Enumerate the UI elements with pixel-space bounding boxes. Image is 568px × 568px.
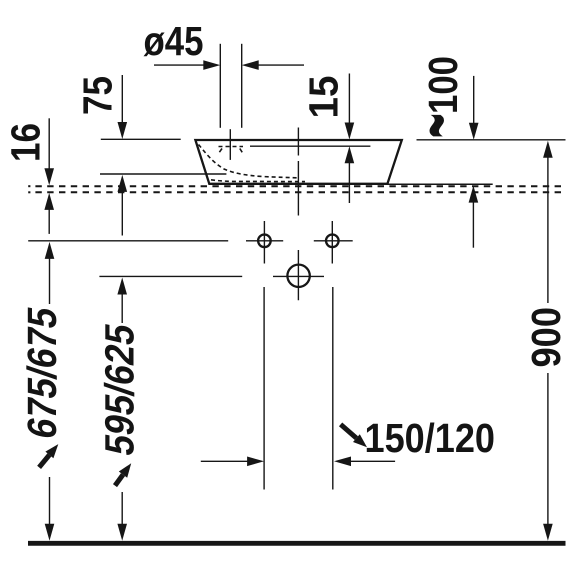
dimension 15 lower shaft with up arrow — [348, 161, 350, 203]
faucet hole hidden outline — [219, 146, 244, 148]
svg-text:75: 75 — [75, 76, 121, 115]
svg-text:15: 15 — [301, 76, 347, 119]
svg-text:16: 16 — [2, 123, 48, 162]
svg-text:ø45: ø45 — [144, 18, 204, 64]
bowl hidden contour lower — [211, 180, 305, 182]
dimension 15 upper shaft with down arrow — [348, 74, 350, 126]
dimension 900 lower segment with down arrow at floor — [547, 373, 549, 527]
leader arrow for 595/625 — [115, 475, 123, 486]
svg-text:595/625: 595/625 — [97, 320, 143, 459]
dimension 675/675 line with up arrow at tap row — [49, 256, 51, 527]
reference line at deck level (left) — [100, 173, 226, 175]
dimension 900 line with up arrow at rim level — [547, 155, 549, 303]
dimension ~100 upper shaft with down arrow — [473, 76, 475, 125]
extension line left of ø45 — [219, 44, 221, 128]
tap hole centre line row (y=240.8) — [28, 240, 353, 242]
basin outline (trapezoid side view) — [195, 140, 401, 184]
reference line at rim level (left) — [101, 138, 181, 140]
leader arrow for 675/675 — [39, 455, 49, 468]
dimension line ø45 left segment with right arrow — [154, 64, 206, 66]
drain centre line row (y=276.4) — [99, 275, 324, 277]
svg-text:150/120: 150/120 — [365, 415, 496, 461]
dimension line ø45 right segment with left arrow — [256, 64, 304, 66]
svg-text:100: 100 — [420, 56, 466, 114]
dimension 595/625 line with up arrow at drain row — [121, 291, 123, 527]
floor line — [28, 541, 566, 546]
countertop dashed line upper — [28, 185, 30, 187]
dimension ~100 lower shaft with up arrow — [472, 200, 474, 248]
basin centre line — [297, 128, 299, 301]
dimension 150/120 right segment with left arrow — [350, 460, 395, 462]
small tap hole circle right — [326, 235, 339, 248]
reference line at rim level (right) — [417, 139, 566, 141]
dimension 75 lower shaft with up arrow — [121, 189, 123, 236]
extension line below left tap hole — [263, 287, 265, 490]
small tap hole circle left — [258, 235, 271, 248]
leader arrow for 150/120 — [341, 424, 357, 438]
dimension 16 upper shaft with down arrow — [48, 118, 50, 170]
svg-text:675/675: 675/675 — [19, 303, 65, 442]
svg-text:900: 900 — [523, 307, 568, 368]
drain circle — [287, 265, 309, 287]
basin inner rim line — [250, 145, 370, 147]
extension line below right tap hole — [332, 287, 334, 490]
dimension 16 lower shaft with up arrow — [48, 207, 50, 234]
small tap hole circle left vertical axis — [263, 221, 265, 264]
extension line right of ø45 — [241, 44, 243, 128]
countertop dashed line lower — [28, 191, 30, 193]
dimension 75 upper shaft with down arrow — [121, 75, 123, 125]
deck solid line right of basin — [388, 183, 493, 185]
dimension 150/120 left segment with right arrow — [201, 460, 250, 462]
faucet hole centre line — [229, 129, 231, 160]
bowl hidden contour upper — [199, 145, 299, 178]
small tap hole circle right vertical axis — [331, 221, 333, 264]
